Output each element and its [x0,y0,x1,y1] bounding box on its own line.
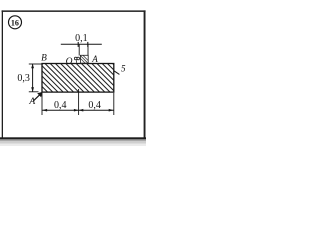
extension line top of 0,3 [29,63,43,65]
frame left line [2,10,3,138]
leader line to 5 [114,71,120,75]
dimension 0,3 line [32,64,34,92]
bottom dim left arrow [42,109,47,112]
svg-text:0,4: 0,4 [88,100,101,111]
svg-text:A: A [91,54,98,64]
arrow to point A bottom corner [34,94,41,100]
svg-text:O: O [66,57,73,67]
svg-text:16: 16 [11,18,19,27]
svg-text:0,4: 0,4 [54,100,67,111]
svg-text:0,1: 0,1 [75,33,88,44]
dimension 0,1 left tick [77,42,79,47]
extension line bottom middle [78,89,80,115]
frame bottom shadow band [0,139,146,141]
dimension 0,1 line [61,43,102,45]
bottom dim right arrow [109,109,114,112]
dimension 0,1 right tick [87,42,89,47]
extension line bottom left [41,93,43,115]
extension line bottom of 0,3 [29,91,39,93]
frame right line [144,10,146,138]
frame top line [2,10,146,12]
figure number circle [9,16,22,29]
frame bottom line [0,137,146,139]
extension line left of 0,1 [78,44,80,55]
dimension 0,4 line [42,109,114,111]
svg-text:5: 5 [121,63,126,73]
dimension 0,3 bottom arrow [31,87,34,92]
tick below O mark [76,60,78,63]
svg-text:0,3: 0,3 [17,73,30,84]
dimension 0,3 top arrow [31,64,34,69]
plate outline [42,64,114,93]
double circle mark at O [74,57,79,60]
small square element hatching [77,55,93,65]
small square element outline [80,55,88,63]
svg-text:B: B [41,54,47,64]
svg-text:A: A [28,97,35,107]
plate hatching [13,62,188,138]
bottom dim middle arrows [74,109,79,112]
extension line bottom right [113,93,115,115]
extension line right of 0,1 [87,44,89,55]
